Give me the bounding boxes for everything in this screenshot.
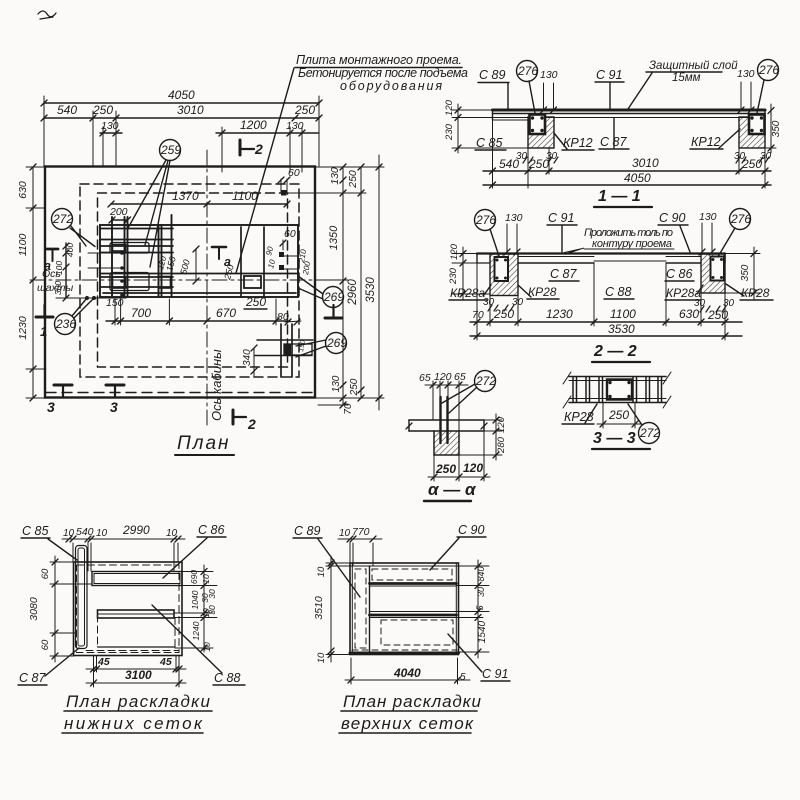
C86 top strip (92, 572, 182, 586)
svg-text:С 86: С 86 (198, 523, 224, 537)
cabin axis vertical (206, 150, 208, 426)
svg-text:1350: 1350 (328, 225, 340, 250)
svg-text:а: а (44, 259, 51, 273)
a-a labels 65 120 65 (419, 371, 466, 384)
svg-text:700: 700 (131, 306, 151, 320)
svg-text:Плита монтажного проема.: Плита монтажного проема. (296, 53, 462, 67)
slab 1-1 (493, 109, 766, 112)
svg-text:30: 30 (207, 605, 217, 615)
svg-text:План раскладки: План раскладки (66, 692, 211, 711)
svg-text:45: 45 (159, 656, 172, 668)
svg-text:С 85: С 85 (22, 524, 48, 538)
left small dim chain 400/100/300 (65, 243, 67, 298)
svg-text:770: 770 (352, 526, 370, 538)
svg-text:Ось кабины: Ось кабины (209, 349, 224, 421)
right block 2-2 (701, 254, 725, 293)
shaft axis horizontal (30, 279, 336, 281)
svg-text:120: 120 (496, 416, 507, 433)
1-1 mid labels (476, 135, 772, 162)
svg-text:300: 300 (53, 281, 63, 295)
svg-text:30: 30 (476, 587, 486, 597)
2-2 dim row 3530 (470, 335, 742, 337)
a-a bottom dims (434, 431, 484, 481)
svg-text:КР28: КР28 (741, 286, 770, 300)
2-2 mid labels (450, 267, 770, 309)
svg-text:3010: 3010 (632, 156, 659, 170)
labels top 1-1 (479, 60, 755, 84)
labels top (294, 523, 484, 539)
svg-text:269: 269 (323, 290, 344, 304)
svg-text:а: а (224, 255, 231, 269)
a-a slab (409, 419, 484, 421)
svg-text:250: 250 (707, 308, 728, 322)
plan outer wall (45, 167, 315, 398)
svg-text:60: 60 (40, 568, 51, 579)
svg-text:65: 65 (419, 372, 431, 384)
main rect (74, 562, 183, 656)
plan dashed contour inner (98, 193, 288, 367)
svg-text:2: 2 (247, 416, 256, 432)
circle 236 (55, 314, 76, 335)
svg-text:259: 259 (160, 143, 181, 157)
svg-text:250: 250 (245, 295, 266, 309)
a-a rebars (439, 397, 441, 443)
svg-text:250: 250 (528, 157, 549, 171)
svg-text:1040: 1040 (190, 590, 200, 609)
svg-text:1230: 1230 (546, 307, 573, 321)
right beam 1-1 (739, 117, 765, 148)
svg-text:200: 200 (109, 206, 128, 218)
svg-text:С 87: С 87 (550, 267, 577, 281)
svg-text:130: 130 (737, 68, 755, 80)
left block 2-2 (490, 254, 518, 296)
svg-text:3: 3 (110, 399, 118, 415)
slab 2-2 (477, 252, 725, 254)
plan dim row 4050 (44, 102, 319, 104)
svg-text:130: 130 (286, 120, 304, 132)
svg-text:С 90: С 90 (458, 523, 484, 537)
C85 vertical strip (76, 546, 88, 649)
opening rect (100, 225, 298, 297)
svg-text:120: 120 (444, 99, 455, 116)
top dim line (62, 538, 185, 540)
svg-text:1100: 1100 (232, 189, 258, 203)
svg-text:1540: 1540 (477, 620, 488, 643)
svg-text:350: 350 (771, 120, 782, 137)
svg-text:15мм: 15мм (672, 72, 701, 84)
section flag 2 bottom (232, 410, 235, 424)
svg-text:250: 250 (435, 462, 456, 476)
dim 340 (253, 348, 255, 371)
svg-text:3: 3 (47, 399, 55, 415)
circle 269 right-mid (323, 287, 344, 308)
svg-text:С 91: С 91 (482, 667, 508, 681)
svg-text:10: 10 (63, 528, 75, 539)
svg-text:2960: 2960 (347, 279, 359, 306)
svg-text:230: 230 (448, 267, 459, 285)
svg-text:1100: 1100 (610, 307, 636, 321)
labels top (22, 523, 224, 539)
circle 259 (160, 140, 181, 161)
svg-text:С 88: С 88 (214, 671, 240, 685)
left cluster horizontals (100, 229, 298, 294)
3-3 vertical bars (573, 377, 662, 402)
main rect (350, 563, 459, 655)
svg-text:С 91: С 91 (596, 68, 622, 82)
svg-text:КР12: КР12 (563, 136, 593, 150)
svg-text:3530: 3530 (365, 277, 377, 303)
svg-text:130: 130 (505, 212, 523, 224)
svg-text:С 89: С 89 (479, 68, 505, 82)
svg-text:130: 130 (329, 167, 341, 185)
extension row y=298 with dots (56, 297, 126, 299)
svg-text:100: 100 (54, 261, 64, 275)
svg-text:С 91: С 91 (548, 211, 574, 225)
svg-text:120: 120 (434, 371, 452, 383)
svg-text:С 90: С 90 (659, 211, 685, 225)
bottom dim 4040 (351, 658, 458, 684)
2-2 left vertical dim (462, 247, 464, 300)
svg-text:4050: 4050 (168, 88, 195, 102)
svg-text:План: План (177, 433, 231, 454)
bottom-right cluster (280, 324, 282, 377)
note leader (236, 68, 294, 273)
svg-text:КР28а: КР28а (450, 286, 485, 300)
svg-text:250: 250 (92, 103, 113, 117)
C91 dashed (381, 620, 453, 645)
left cluster verticals (112, 215, 172, 297)
1-1 tiny 30 dims (523, 157, 527, 163)
svg-text:630: 630 (17, 181, 29, 199)
svg-text:10: 10 (339, 528, 351, 539)
svg-text:630: 630 (679, 307, 699, 321)
svg-text:60: 60 (40, 639, 51, 650)
svg-text:60: 60 (284, 228, 296, 240)
svg-text:120: 120 (463, 461, 483, 475)
svg-text:80: 80 (277, 311, 289, 323)
small squares right cluster (279, 252, 284, 257)
svg-text:1240: 1240 (191, 621, 201, 640)
plan right dim chains (342, 167, 344, 405)
svg-text:контуру проема: контуру проема (592, 238, 672, 250)
svg-text:10: 10 (316, 652, 327, 663)
a-a beam below (434, 431, 459, 455)
svg-text:С 87: С 87 (19, 671, 46, 685)
svg-text:250: 250 (349, 378, 360, 396)
svg-text:690: 690 (189, 570, 199, 584)
svg-text:340: 340 (242, 349, 253, 366)
svg-text:1200: 1200 (240, 118, 267, 132)
svg-text:3530: 3530 (608, 322, 635, 336)
right cluster verticals (240, 227, 242, 297)
3-3 band (569, 376, 666, 378)
section flag 2 top (239, 140, 242, 155)
svg-text:оборудования: оборудования (340, 79, 442, 93)
svg-text:272: 272 (639, 426, 660, 440)
svg-text:276: 276 (730, 212, 751, 226)
left beam 1-1 (528, 117, 554, 148)
svg-text:65: 65 (454, 371, 466, 383)
svg-text:272: 272 (475, 374, 496, 388)
svg-text:276: 276 (517, 64, 538, 78)
svg-text:250: 250 (493, 307, 514, 321)
svg-text:10: 10 (96, 528, 108, 539)
svg-text:1: 1 (40, 324, 47, 339)
middle strip (98, 610, 175, 618)
svg-text:нижних сеток: нижних сеток (64, 714, 203, 733)
svg-text:10: 10 (201, 574, 211, 584)
section flag a mid (212, 246, 226, 249)
svg-text:350: 350 (740, 264, 751, 281)
svg-text:120: 120 (449, 243, 460, 260)
svg-text:70: 70 (472, 309, 484, 321)
a-a right dim (495, 414, 497, 460)
svg-text:С 88: С 88 (605, 285, 631, 299)
corner mark (38, 11, 56, 19)
small rect right of lower slot (159, 277, 171, 289)
dim 200 (112, 219, 128, 221)
2-2 tiny 30 dim slashes (488, 305, 492, 311)
svg-text:2 — 2: 2 — 2 (593, 343, 637, 360)
1-1 left vertical dim (457, 104, 459, 153)
svg-text:1230: 1230 (17, 316, 29, 340)
svg-text:130: 130 (331, 375, 342, 392)
dots column (120, 251, 124, 255)
plan dashed contour outer (80, 184, 299, 377)
svg-text:1 — 1: 1 — 1 (598, 188, 641, 205)
svg-text:670: 670 (216, 306, 236, 320)
1-1 dim row 4050 (483, 184, 771, 186)
C88 dashed region (98, 618, 176, 647)
svg-text:230: 230 (444, 123, 455, 141)
3-3 break marks (563, 372, 571, 384)
svg-text:3100: 3100 (125, 668, 152, 682)
C90 top strip (370, 582, 457, 585)
svg-text:269: 269 (326, 336, 347, 350)
svg-text:1100: 1100 (17, 234, 29, 257)
svg-text:236: 236 (55, 317, 76, 331)
1-1 right vertical dim 350 (770, 104, 772, 153)
svg-text:4040: 4040 (393, 666, 421, 680)
extension verticals top (44, 96, 319, 172)
svg-text:280: 280 (496, 436, 507, 454)
svg-text:840: 840 (476, 566, 486, 581)
section flag 3 marks bottom (54, 384, 72, 387)
svg-text:α — α: α — α (428, 480, 477, 499)
section flag 1 left (36, 316, 53, 319)
svg-text:540: 540 (57, 103, 77, 117)
svg-text:30: 30 (483, 297, 495, 308)
left dim chain (54, 556, 56, 662)
1-1 dim row 540/250/3010/250 (483, 170, 771, 172)
bottom dims (94, 656, 180, 687)
svg-text:КР28: КР28 (528, 285, 557, 299)
svg-text:2: 2 (254, 141, 263, 157)
svg-text:540: 540 (499, 157, 519, 171)
svg-text:3010: 3010 (177, 103, 204, 117)
svg-text:276: 276 (758, 63, 779, 77)
2-2 extension verticals (477, 263, 725, 340)
svg-text:С 85: С 85 (476, 136, 502, 150)
plan left dim chain (32, 167, 34, 398)
svg-text:1370: 1370 (172, 189, 199, 203)
svg-text:250: 250 (294, 103, 315, 117)
a-a circle 272 (475, 371, 496, 392)
dashed inner rect (77, 565, 180, 653)
right small dim chain (174, 565, 217, 652)
svg-text:5: 5 (460, 672, 466, 683)
rot labels 150/500 mid (156, 255, 236, 282)
plan hidden line near bottom (46, 392, 314, 394)
circle 269 lower (326, 333, 347, 354)
svg-text:План раскладки: План раскладки (343, 692, 482, 711)
titles (64, 692, 211, 733)
middle strip (370, 611, 457, 613)
svg-text:250: 250 (347, 170, 359, 189)
top dim (338, 538, 382, 540)
svg-text:10: 10 (316, 566, 327, 577)
svg-text:30: 30 (207, 589, 217, 599)
svg-text:2990: 2990 (122, 523, 150, 537)
svg-text:КР12: КР12 (691, 135, 721, 149)
dim 1370 1100 (111, 203, 287, 205)
svg-text:250: 250 (608, 408, 629, 422)
dim 700/670/150 row (106, 320, 290, 322)
svg-text:верхних сеток: верхних сеток (341, 714, 474, 733)
plan dim row 540/250/3010/250 (44, 117, 319, 119)
svg-text:250: 250 (741, 157, 762, 171)
note text (296, 53, 468, 93)
svg-text:276: 276 (475, 213, 496, 227)
svg-text:3080: 3080 (28, 597, 40, 621)
section flag 1 right (325, 317, 342, 320)
right extension lines (300, 167, 384, 405)
svg-text:45: 45 (97, 656, 110, 668)
plan dim row 130/1200/130 (100, 132, 122, 134)
svg-text:3510: 3510 (313, 596, 325, 620)
right dim chain (456, 560, 489, 658)
svg-text:С 86: С 86 (666, 267, 692, 281)
svg-text:400: 400 (65, 243, 75, 257)
svg-text:272: 272 (52, 212, 73, 226)
slot plate lower (110, 273, 149, 291)
titles (341, 692, 482, 733)
3-3 cage (607, 380, 632, 400)
2-2 right vertical dim 350 (753, 247, 755, 300)
C89 strip (369, 566, 371, 652)
svg-text:С 89: С 89 (294, 524, 320, 538)
1-1 extension verticals (493, 120, 766, 188)
svg-text:Защитный слой: Защитный слой (649, 60, 738, 72)
circle 272 plan (52, 209, 73, 230)
left dim chain (330, 556, 332, 662)
2-2 dim row (470, 321, 742, 323)
slot rect right cluster (244, 276, 261, 288)
svg-text:4050: 4050 (624, 171, 651, 185)
svg-text:130: 130 (699, 211, 717, 223)
2-2 top labels (475, 210, 496, 231)
svg-text:130: 130 (540, 69, 558, 81)
svg-text:10: 10 (202, 642, 212, 652)
section flag a left (47, 248, 58, 251)
svg-text:3 — 3: 3 — 3 (593, 430, 636, 447)
slot plate upper (110, 243, 149, 254)
